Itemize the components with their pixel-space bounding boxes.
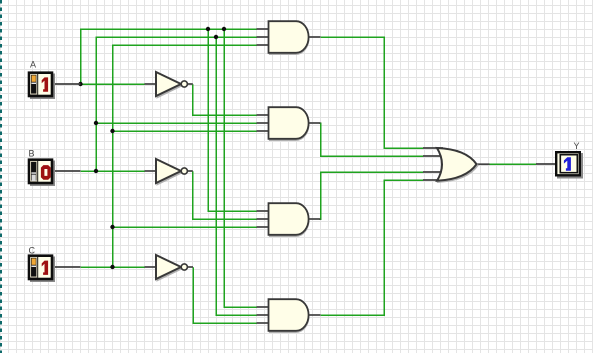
wire AND1 output to OR input1	[321, 37, 424, 148]
input toggle C body	[29, 256, 55, 282]
wire net B: up from B junction to AND1 input2	[96, 37, 257, 171]
input toggle A body	[29, 73, 55, 99]
wire net B: branch to AND2 input2	[96, 122, 257, 124]
svg-text:B: B	[29, 149, 35, 159]
wire net B: drop at x=216 to AND4 input2	[216, 37, 257, 315]
junction node net B drop x=216	[214, 35, 218, 39]
AND gate U7 body	[269, 299, 309, 332]
wire AND4 output to OR input4	[321, 180, 424, 315]
svg-text:A: A	[30, 60, 36, 70]
wire AND3 output to OR input3	[319, 172, 423, 219]
AND gate U4 input stubs	[257, 29, 270, 45]
wire NOT2 output to AND3 input2	[193, 171, 257, 219]
NOT gate U2 input stub	[145, 170, 158, 172]
wire NOT3 output to AND4 input3	[193, 267, 257, 323]
wire net A: up from A junction to AND1 input1	[81, 29, 257, 84]
AND gate U4 output stub	[309, 36, 321, 38]
wire net B: B pin to NOT2 input	[81, 170, 145, 172]
NOT gate U3 output stub	[187, 266, 193, 268]
probe Y body	[556, 152, 583, 178]
junction node net C branch to AND3	[110, 225, 114, 229]
wire AND2 output to OR input2	[319, 123, 423, 156]
AND gate U7 input stubs	[257, 307, 270, 323]
input toggle C pin	[53, 266, 81, 268]
NOT gate U1 input stub	[145, 83, 158, 85]
svg-text:Y: Y	[574, 141, 580, 151]
wire net A: drop at x=208 to AND3 input1	[208, 29, 257, 211]
wire net C: up from C junction to AND1 input3	[113, 45, 257, 267]
input toggle B pin	[53, 170, 81, 172]
input toggle A pin	[53, 83, 81, 85]
input toggle B body	[29, 160, 55, 186]
probe Y pin	[536, 163, 556, 165]
junction node on net C at input row	[110, 265, 114, 269]
svg-text:C: C	[29, 246, 36, 256]
wire net A: drop at x=224 to AND4 input1	[224, 29, 257, 307]
wire net C: branch to AND2 input3	[113, 130, 257, 132]
junction node net C branch to AND2	[110, 129, 114, 133]
junction node on net A at input row	[78, 82, 82, 86]
junction node net B branch to AND2	[94, 121, 98, 125]
AND gate U6 output stub	[309, 218, 321, 220]
wire net C: C pin to NOT3 input	[81, 266, 145, 268]
AND gate U5 output stub	[309, 122, 321, 124]
AND gate U6 body	[269, 203, 309, 236]
NOT gate U2 body	[156, 159, 187, 184]
NOT gate U2 output stub	[187, 170, 192, 172]
NOT gate U3 body	[156, 255, 187, 280]
junction node on net B at input row	[94, 169, 98, 173]
OR gate U8 body	[437, 148, 478, 182]
NOT gate U1 output stub	[187, 83, 192, 85]
wire net C: branch to AND3 input3	[113, 226, 257, 228]
junction node net A drop x=208	[206, 27, 210, 31]
NOT gate U3 input stub	[145, 266, 158, 268]
NOT gate U1 body	[156, 72, 187, 97]
wire NOT1 output to AND2 input1	[193, 84, 257, 115]
wire OR output to probe Y	[489, 163, 537, 165]
AND gate U6 input stubs	[257, 211, 270, 227]
junction node net A drop x=224	[222, 27, 226, 31]
OR gate U8 input stubs	[423, 148, 444, 180]
OR gate U8 output stub	[477, 163, 490, 165]
page margin dashed line	[0, 0, 2, 353]
AND gate U7 output stub	[309, 314, 321, 316]
AND gate U5 input stubs	[257, 115, 270, 131]
AND gate U5 body	[269, 107, 309, 140]
wire net A: A pin to NOT1 input	[81, 83, 145, 85]
AND gate U4 body	[269, 21, 309, 54]
